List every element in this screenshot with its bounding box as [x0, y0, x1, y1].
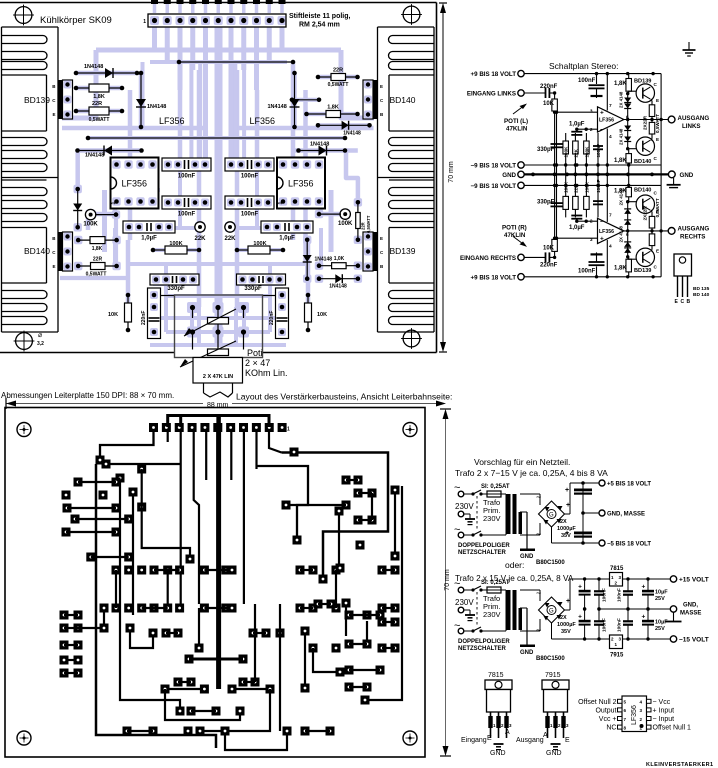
svg-text:7815: 7815 [488, 672, 504, 679]
svg-text:E: E [656, 98, 659, 103]
pin header Stiftleiste [148, 14, 286, 27]
wire jumper long [88, 137, 345, 139]
cluster bottom-left: diode 1N4148 vertical [77, 189, 79, 227]
svg-text:EINGANG LINKS: EINGANG LINKS [467, 91, 516, 98]
channel 1 wire to pin3 [555, 237, 598, 239]
svg-text:Trafo 2 x 15 V je ca. 0,25A, 8: Trafo 2 x 15 V je ca. 0,25A, 8 VA [455, 574, 574, 583]
svg-text:0,5WATT: 0,5WATT [89, 117, 110, 123]
electrolytic caps 1000uF [582, 483, 584, 543]
svg-text:7815: 7815 [610, 566, 624, 572]
svg-text:2 × 47: 2 × 47 [245, 358, 270, 368]
channel 0 poti 10K [554, 93, 556, 165]
channel 0 output wire [624, 119, 668, 121]
svg-text:22R: 22R [361, 222, 366, 230]
svg-text:Trafo 2 x 7−15 V je ca. 0,25A,: Trafo 2 x 7−15 V je ca. 0,25A, 4 bis 8 V… [455, 468, 608, 478]
svg-text:+: + [600, 236, 604, 243]
svg-text:BD140: BD140 [24, 246, 50, 256]
svg-text:+: + [566, 598, 570, 605]
svg-text:100nF: 100nF [241, 212, 259, 218]
diode 1N4148 mid-left [78, 150, 142, 152]
transistor BD140 top-right [373, 80, 378, 119]
capacitor 100nF x4 [162, 158, 211, 171]
svg-text:Poti: Poti [247, 348, 263, 358]
right loop 2 [257, 466, 309, 540]
svg-text:Vorschlag für ein Netzteil.: Vorschlag für ein Netzteil. [474, 457, 570, 467]
svg-text:70 mm: 70 mm [444, 569, 451, 591]
svg-text:100K: 100K [169, 241, 182, 247]
svg-text:GND: GND [520, 650, 534, 656]
center tap to GND [526, 512, 528, 549]
channel 1 poti 10K [554, 185, 556, 257]
poti cable [203, 383, 205, 393]
svg-text:LF356: LF356 [631, 705, 638, 725]
svg-text:GND, MASSE: GND, MASSE [607, 512, 645, 518]
channel 0 100nF rail cap [596, 74, 598, 84]
svg-text:B80C1500: B80C1500 [536, 560, 565, 566]
pad 100K left [86, 210, 96, 220]
svg-text:100K: 100K [584, 146, 589, 158]
capacitor 1,0uF right [261, 221, 313, 233]
resistor 1,8K bottom-left [78, 239, 116, 241]
channel 0 transistor lower [636, 137, 654, 155]
dimension arrow 70mm right [442, 12, 444, 343]
wire 220nF to poti left [161, 295, 175, 297]
svg-text:+: + [642, 584, 646, 591]
svg-text:330pF: 330pF [537, 147, 555, 153]
svg-text:1: 1 [278, 202, 284, 205]
regulator 7915 [610, 635, 623, 649]
svg-text:+: + [578, 614, 582, 621]
svg-text:LF356: LF356 [599, 118, 614, 124]
channel 1 feedback resistor column [565, 185, 567, 217]
trimmer 2 [208, 349, 229, 356]
capacitor 220nF left [148, 288, 161, 339]
svg-text:330pF: 330pF [537, 199, 555, 205]
wire jumper top [179, 61, 293, 63]
resistor 22R 0,5WATT vertical right [357, 202, 359, 240]
left loop 2 [120, 478, 180, 711]
svg-text:2X 4148: 2X 4148 [619, 91, 624, 108]
svg-text:3: 3 [590, 109, 593, 115]
svg-text:+: + [578, 584, 582, 591]
channel 0 330pF [556, 112, 558, 165]
svg-text:Eingang: Eingang [461, 737, 487, 744]
svg-text:25V: 25V [655, 626, 665, 632]
diode 1N4148 vertical left-center [140, 73, 142, 127]
poti connector box [193, 358, 243, 384]
svg-text:0,5WATT: 0,5WATT [86, 272, 107, 278]
right lower cluster [314, 600, 323, 609]
svg-text:−9 BIS 18 VOLT: −9 BIS 18 VOLT [471, 163, 517, 170]
ground symbol below GND terminal [673, 178, 675, 185]
svg-text:+15 VOLT: +15 VOLT [679, 577, 709, 584]
svg-text:GND,: GND, [683, 603, 698, 609]
svg-text:Stiftleiste 11 polig,: Stiftleiste 11 polig, [289, 13, 351, 20]
right vertical pair [394, 490, 396, 556]
svg-text:10K: 10K [317, 312, 327, 318]
channel 1 330pF [556, 185, 558, 238]
svg-text:7: 7 [609, 103, 612, 109]
channel 1 100nF rail cap [596, 266, 598, 276]
resistor 10K vertical left [127, 295, 129, 330]
svg-text:NETZSCHALTER: NETZSCHALTER [458, 550, 507, 556]
central thick trace [216, 427, 221, 689]
svg-text:−15 VOLT: −15 VOLT [679, 637, 709, 644]
svg-text:+9 BIS 18 VOLT: +9 BIS 18 VOLT [471, 71, 517, 78]
svg-text:E: E [380, 84, 383, 89]
capacitor 330pF right [237, 274, 286, 285]
svg-text:220nF: 220nF [269, 311, 275, 325]
PCB border [5, 408, 425, 758]
svg-text:1,8K: 1,8K [614, 81, 627, 87]
svg-text:10K: 10K [543, 245, 555, 251]
svg-text:DOPPELPOLIGER: DOPPELPOLIGER [458, 639, 510, 645]
svg-text:1000µF: 1000µF [557, 622, 576, 628]
svg-text:EINGANG RECHTS: EINGANG RECHTS [460, 255, 516, 262]
top bus [168, 416, 269, 428]
svg-text:1,8K: 1,8K [614, 158, 627, 164]
row 633 [162, 629, 171, 638]
row 570 [112, 566, 121, 575]
svg-text:Kühlkörper SK09: Kühlkörper SK09 [40, 15, 112, 26]
channel 1 transistor lower [636, 195, 654, 213]
diode 1N4148 right-top [318, 124, 370, 126]
svg-text:G: G [549, 609, 554, 615]
svg-text:Offset Null 2: Offset Null 2 [578, 699, 616, 706]
right mid wire 505 [286, 504, 346, 506]
svg-text:BD140: BD140 [390, 95, 416, 105]
svg-text:100nF: 100nF [178, 174, 196, 180]
diode 1N4148 horizontal bottom-right [319, 278, 358, 280]
header pads row [149, 423, 158, 432]
dimension 70mm right side [445, 417, 447, 748]
svg-text:SI: 0,25AT: SI: 0,25AT [481, 580, 510, 586]
svg-text:E: E [656, 137, 659, 142]
svg-text:2X22R: 2X22R [643, 206, 648, 221]
svg-text:Layout des Verstärkerbausteins: Layout des Verstärkerbausteins, Ansicht … [236, 392, 452, 402]
svg-text:1: 1 [287, 427, 290, 433]
stair mid-left [142, 507, 190, 559]
svg-text:Vcc +: Vcc + [599, 716, 617, 723]
svg-text:1,0µF: 1,0µF [569, 225, 585, 231]
svg-text:E: E [565, 737, 570, 744]
svg-text:RM 2,54 mm: RM 2,54 mm [299, 22, 340, 29]
svg-text:BD140: BD140 [634, 159, 651, 165]
svg-text:22K: 22K [224, 236, 236, 242]
mid stair 2 [130, 628, 153, 648]
svg-text:BD 135: BD 135 [693, 286, 710, 292]
svg-text:100K: 100K [253, 241, 266, 247]
svg-text:230V: 230V [483, 610, 501, 619]
svg-text:BD139: BD139 [24, 95, 50, 105]
svg-text:25V: 25V [655, 596, 665, 602]
svg-text:KOhm Lin.: KOhm Lin. [245, 368, 288, 378]
crosshair hole bottom-right [403, 330, 420, 347]
svg-text:1N4148: 1N4148 [147, 104, 166, 110]
svg-text:LF356: LF356 [599, 229, 614, 235]
svg-text:E: E [487, 735, 492, 742]
resistor 22R 0,5WATT left [76, 110, 122, 112]
bridge rectifier B80C1500 [539, 501, 565, 527]
bottom right hooks [313, 648, 340, 672]
svg-text:100nF: 100nF [596, 144, 601, 157]
svg-text:− Vcc: − Vcc [653, 699, 671, 706]
right upper pads [290, 448, 299, 457]
switch DOPPELPOLIGER [464, 493, 472, 495]
transistor BD139 top-left [58, 80, 63, 119]
svg-text:1N4148: 1N4148 [310, 142, 329, 148]
svg-text:10K: 10K [543, 101, 555, 107]
svg-text:4: 4 [609, 134, 612, 140]
svg-text:+5 BIS 18 VOLT: +5 BIS 18 VOLT [607, 482, 651, 488]
svg-text:100nF: 100nF [578, 78, 596, 84]
svg-text:E: E [380, 236, 383, 241]
svg-text:LF356: LF356 [288, 179, 314, 189]
resistor 100K mid-left [153, 249, 199, 251]
dimension 88mm [6, 403, 203, 405]
transistor BD139 bottom-right [373, 232, 378, 271]
svg-text:47KLIN: 47KLIN [506, 126, 528, 133]
cluster bottom-right: pad 100K [340, 209, 350, 219]
resistor 1,8K right [307, 113, 358, 115]
column crossings between rails [554, 165, 556, 185]
bridge rectifier B80C1500 [539, 597, 565, 623]
svg-text:220nF: 220nF [540, 262, 558, 268]
svg-text:1: 1 [111, 202, 117, 205]
svg-text:100K: 100K [564, 146, 569, 158]
verticals from header [180, 432, 182, 604]
resistor 1,0K bottom-right [319, 265, 358, 267]
svg-text:C: C [681, 299, 685, 305]
svg-text:G: G [549, 513, 554, 519]
switch DOPPELPOLIGER [464, 589, 472, 591]
svg-text:100nF: 100nF [617, 618, 623, 632]
svg-text:+: + [600, 110, 604, 117]
svg-text:Offset Null 1: Offset Null 1 [653, 725, 691, 732]
svg-text:POTI (R): POTI (R) [502, 225, 527, 232]
svg-text:1,0K: 1,0K [334, 256, 345, 262]
wire 220nF to poti right [263, 295, 276, 297]
svg-text:GND: GND [680, 172, 694, 179]
mounting holes [17, 423, 31, 437]
svg-text:100nF: 100nF [178, 212, 196, 218]
channel 1 output wire [624, 230, 668, 232]
channel 1 opamp power pins [606, 240, 608, 277]
row 711 [187, 707, 196, 716]
left outer loop [96, 464, 216, 748]
DIP8 LF356 pinout [622, 696, 647, 732]
svg-text:LF356: LF356 [250, 116, 276, 126]
svg-text:330pF: 330pF [167, 286, 185, 292]
svg-text:3,2: 3,2 [37, 341, 44, 347]
svg-text:7915: 7915 [610, 653, 624, 659]
channel 0 opamp power pins [606, 74, 608, 111]
transformer [481, 630, 506, 632]
trimmer 1 [208, 318, 229, 325]
transistor BD140 bottom-left [58, 232, 63, 271]
diode 1N4148 mid-right [299, 150, 346, 152]
crosshair hole top-right [403, 6, 420, 23]
left lower pad column [60, 611, 69, 620]
svg-text:Schaltplan Stereo:: Schaltplan Stereo: [549, 61, 618, 71]
svg-text:BD139: BD139 [634, 79, 651, 85]
heatsink SK09 left outline [1, 27, 3, 332]
svg-text:100nF: 100nF [617, 588, 623, 602]
IC LF356 right DIP8 [277, 158, 325, 209]
channel 0 feedback resistor column [565, 133, 567, 165]
crosshair hole top-left [15, 7, 32, 24]
lavender traces layer [96, 48, 341, 53]
right vertical 339 [338, 511, 340, 565]
svg-text:SI: 0,25AT: SI: 0,25AT [481, 484, 510, 490]
svg-text:0,5WATT: 0,5WATT [655, 198, 660, 217]
channel 1 transistor upper [636, 248, 654, 266]
output cluster lavender pads [74, 185, 82, 193]
channel 1 pin2 wire and 1,0uF [586, 220, 597, 222]
svg-text:E: E [52, 112, 55, 117]
svg-text:2X: 2X [560, 519, 567, 525]
diode D 1N4148 left-top [76, 72, 137, 74]
svg-text:10µF: 10µF [655, 590, 668, 596]
svg-text:7: 7 [609, 212, 612, 218]
svg-text:1,0µF: 1,0µF [569, 122, 585, 128]
heatsink SK09 right outline [377, 27, 379, 332]
filter cap columns block2 [584, 579, 586, 591]
svg-text:2 X 47K LIN: 2 X 47K LIN [203, 374, 233, 380]
svg-text:−: − [600, 219, 604, 226]
capacitor 330pF left [150, 274, 199, 285]
svg-text:0,5WATT: 0,5WATT [366, 215, 371, 233]
ground symbol top right [688, 42, 690, 50]
IC LF356 left DIP8 [111, 158, 159, 209]
svg-text:2X: 2X [560, 615, 567, 621]
svg-text:220nF: 220nF [540, 84, 558, 90]
center verticals lower [198, 608, 200, 648]
gnd symbol under GND MASSE [673, 613, 675, 622]
channel 1 220nF input cap [545, 252, 547, 262]
svg-text:330pF: 330pF [244, 286, 262, 292]
channel 0 wire to pin3 [555, 111, 598, 113]
svg-text:100nF: 100nF [602, 618, 608, 632]
capacitor 1,0uF left [123, 221, 175, 233]
svg-text:AUSGANG: AUSGANG [678, 115, 710, 122]
svg-text:2X 4148: 2X 4148 [619, 225, 624, 242]
svg-text:7915: 7915 [545, 672, 561, 679]
svg-text:E: E [52, 264, 55, 269]
svg-text:22R: 22R [92, 101, 102, 107]
svg-text:AUSGANG: AUSGANG [678, 226, 710, 233]
svg-text:100K: 100K [338, 221, 353, 227]
svg-text:−: − [600, 127, 604, 134]
svg-text:1N4148: 1N4148 [268, 104, 287, 110]
svg-text:230V: 230V [455, 598, 474, 607]
crosshair hole bottom-left [16, 333, 33, 350]
svg-text:1,0µF: 1,0µF [279, 236, 295, 242]
channel 1 1,8K resistors [628, 257, 630, 277]
channel 0 1,8K resistors [628, 74, 630, 94]
channel 0 pin2 wire and 1,0uF [586, 128, 597, 130]
svg-text:1,0µF: 1,0µF [141, 236, 157, 242]
svg-text:A: A [543, 732, 548, 739]
svg-text:E: E [656, 248, 659, 253]
resistor 10K vertical right [307, 295, 309, 330]
svg-text:B80C1500: B80C1500 [536, 656, 565, 662]
channel 0 220nF input cap [545, 88, 547, 98]
svg-text:22R: 22R [333, 68, 343, 74]
svg-text:1N4148: 1N4148 [84, 64, 103, 70]
channel 0 22R resistors [651, 101, 653, 139]
svg-text:2: 2 [590, 127, 593, 133]
svg-text:100K: 100K [83, 222, 98, 228]
svg-text:100nF: 100nF [241, 174, 259, 180]
row 608 middle [100, 604, 109, 613]
wire right small [292, 99, 319, 101]
bottom bus row 689 [165, 688, 204, 690]
row 659 pair [185, 655, 194, 664]
svg-text:GND: GND [546, 750, 562, 757]
svg-text:POTI (L): POTI (L) [504, 118, 528, 125]
svg-text:LF356: LF356 [122, 179, 148, 189]
capacitor 220nF right [276, 288, 289, 339]
svg-text:GND: GND [490, 750, 506, 757]
transformer [481, 534, 506, 536]
svg-text:−5 BIS 18 VOLT: −5 BIS 18 VOLT [607, 542, 651, 548]
svg-text:22R: 22R [93, 257, 103, 263]
svg-text:B: B [687, 299, 691, 305]
bottom row 731 [123, 727, 132, 736]
TO-126 package drawing [674, 254, 692, 276]
svg-text:10K: 10K [108, 312, 118, 318]
pad 22K circles [195, 222, 205, 232]
svg-text:KLEINVERSTAERKER1: KLEINVERSTAERKER1 [646, 762, 714, 768]
left upper pad cluster [74, 478, 83, 487]
center tap to GND [526, 608, 528, 645]
svg-text:+9 BIS 18 VOLT: +9 BIS 18 VOLT [471, 274, 517, 281]
channel 0 opamp LF356 [598, 107, 624, 132]
svg-text:10µF: 10µF [655, 620, 668, 626]
svg-text:⌀: ⌀ [38, 332, 42, 339]
resistor 100K mid-right [237, 249, 283, 251]
svg-text:100nF: 100nF [578, 268, 596, 274]
svg-text:35V: 35V [561, 629, 571, 635]
svg-text:0,5WATT: 0,5WATT [655, 114, 660, 133]
channel 0 diode chain 2X4148 [627, 94, 629, 150]
svg-text:+: + [642, 614, 646, 621]
svg-text:Abmessungen Leiterplatte 150 D: Abmessungen Leiterplatte 150 DPI: 88 × 7… [1, 391, 174, 400]
svg-text:NETZSCHALTER: NETZSCHALTER [458, 646, 507, 652]
svg-text:NC: NC [606, 725, 616, 732]
right outer loop [282, 453, 389, 580]
svg-text:2X 4148: 2X 4148 [619, 188, 624, 205]
svg-text:+ Input: + Input [653, 707, 675, 714]
svg-text:oder:: oder: [505, 560, 524, 570]
svg-text:22K: 22K [194, 236, 206, 242]
resistor 1,8K left [76, 87, 122, 89]
svg-text:BD140: BD140 [634, 187, 651, 193]
svg-text:+: + [565, 530, 569, 537]
right rows lower [296, 566, 305, 575]
right stair down [345, 603, 347, 636]
svg-text:70 mm: 70 mm [448, 161, 455, 183]
resistor 22R right-top [318, 76, 358, 78]
svg-text:3: 3 [590, 237, 593, 243]
svg-text:RECHTS: RECHTS [680, 234, 705, 241]
resistor 22R bottom-left [78, 265, 116, 267]
svg-text:BD 140: BD 140 [693, 292, 710, 298]
svg-text:DOPPELPOLIGER: DOPPELPOLIGER [458, 543, 510, 549]
svg-text:−9 BIS 18 VOLT: −9 BIS 18 VOLT [471, 183, 517, 190]
bottom center loops [165, 689, 240, 720]
